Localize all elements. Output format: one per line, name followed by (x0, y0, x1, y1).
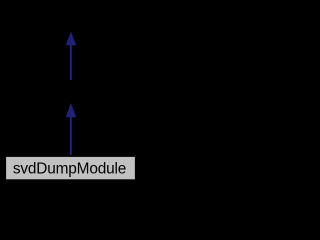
node A: upper inheritance arrowhead (66, 32, 76, 46)
box: class node svdDumpModule (5, 156, 135, 180)
wire: lower inheritance edge stem (70, 116, 72, 155)
inheritance graph: svdDumpModule (0, 0, 141, 187)
node B: lower inheritance arrowhead (66, 103, 76, 117)
wire: upper inheritance edge stem (70, 44, 72, 80)
svg-text:svdDumpModule: svdDumpModule (13, 161, 126, 178)
